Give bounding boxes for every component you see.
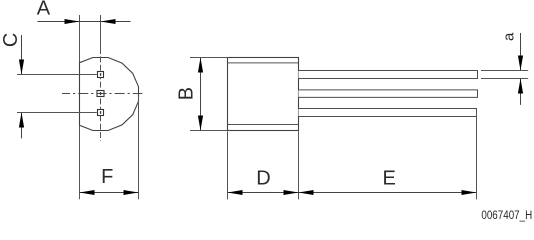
dimension D (extension lines, dim line, outward arrows) [228, 131, 299, 199]
lead 2 (middle) [299, 90, 478, 98]
body top band line [228, 62, 299, 64]
svg-text:F: F [101, 166, 113, 188]
dimension E (extension line, dim line, outward arrows) [299, 109, 477, 200]
lead 3 (bottom) [299, 109, 477, 117]
vertical centre line (dashed) through pins [100, 48, 102, 141]
svg-text:E: E [383, 167, 396, 189]
svg-text:B: B [175, 87, 197, 100]
svg-text:D: D [256, 167, 270, 189]
dimension C (extension lines, dim line, arrows) [17, 35, 97, 138]
body bottom band line [228, 124, 299, 126]
pin 2 (middle) [97, 91, 104, 97]
svg-text:0067407_H: 0067407_H [481, 209, 532, 222]
flat-edge extension line (left view) [79, 15, 81, 199]
dimension A (dim line + inward arrows) [38, 19, 131, 24]
svg-text:C: C [0, 33, 22, 47]
horizontal centre line (dash-dot) through middle pin [62, 93, 142, 95]
pin 3 (bottom) [98, 110, 104, 116]
dimension F (right extension line, dim line, outward arrows) [80, 96, 139, 200]
dimension B (extension lines, dim line, outward arrows) [190, 58, 228, 131]
dimension a (extension lines, dim line, inward arrows) [481, 33, 528, 105]
svg-text:A: A [37, 0, 51, 20]
package outline (top view, circle with flat) [80, 58, 139, 131]
body outline (side view) [228, 58, 299, 131]
lead 1 (top) [299, 71, 478, 79]
pin 1 (top) [98, 72, 104, 78]
pin centre extension line (solid upper part) [100, 15, 102, 48]
svg-text:a: a [500, 32, 517, 41]
